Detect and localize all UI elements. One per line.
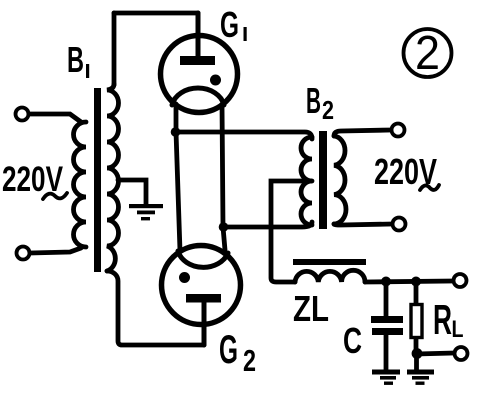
node A (junction dot) <box>171 127 181 137</box>
terminal T4 (right mid) <box>393 218 406 231</box>
svg-text:2: 2 <box>243 343 256 378</box>
svg-text:G: G <box>219 328 238 372</box>
label 220V (left) <box>2 160 63 199</box>
svg-text:B: B <box>306 80 321 121</box>
svg-text:G: G <box>220 4 239 45</box>
G2 plate lead <box>202 300 207 345</box>
wire (node D to ground) <box>414 354 419 370</box>
G2 plate bar <box>186 294 221 303</box>
transformer B2 primary winding <box>301 137 312 225</box>
figure number circled 2 <box>404 29 452 77</box>
transformer B2 core <box>319 131 327 229</box>
capacitor C plate 2 <box>372 328 403 335</box>
G1 plate bar <box>180 56 215 65</box>
wire (junction A to B2 primary top) <box>175 132 312 139</box>
terminal T3 (right top) <box>392 124 405 137</box>
wire (top horizontal) <box>114 11 198 16</box>
tube G2 <box>162 246 241 325</box>
wire (B1 tap to ground) <box>118 180 146 204</box>
G1 filament arc <box>172 88 224 105</box>
wire (junction B to B2 primary bottom) <box>223 222 312 227</box>
label ZL <box>293 288 329 329</box>
wire (capacitor to ground) <box>384 335 389 370</box>
wire (B2 secondary top lead) <box>334 130 391 136</box>
wire (left filament lead G1 to G2) <box>176 104 180 251</box>
svg-text:ZL: ZL <box>293 288 329 329</box>
G1 plate lead <box>196 13 201 57</box>
wire (B2 center tap down to choke) <box>271 181 312 282</box>
svg-text:L: L <box>452 316 464 343</box>
wire <box>30 248 81 253</box>
capacitor C plate 1 <box>371 316 403 323</box>
transformer B1 secondary winding <box>107 84 119 271</box>
svg-text:2: 2 <box>415 27 440 80</box>
wire (B1 secondary bottom lead) <box>107 271 204 345</box>
G2 gas dot <box>179 272 190 283</box>
label B1 <box>67 39 89 80</box>
label B2 <box>306 80 334 125</box>
ground (resistor) <box>407 370 434 385</box>
choke ZL winding <box>295 270 365 282</box>
wire (junction C2 to resistor) <box>414 281 419 303</box>
node C1 (junction dot) <box>381 277 391 287</box>
node B (junction dot) <box>219 222 229 232</box>
choke ZL core bar <box>293 259 366 265</box>
node C2 (junction dot) <box>411 277 421 287</box>
svg-text:R: R <box>433 296 452 343</box>
wire (node D to output terminal) <box>416 353 454 354</box>
label C <box>343 320 362 361</box>
label RL <box>433 296 464 343</box>
svg-text:C: C <box>343 320 362 361</box>
wire <box>29 114 81 122</box>
svg-text:B: B <box>67 39 84 80</box>
tilde under left V <box>43 193 67 199</box>
terminal T6 (right output bottom) <box>455 347 468 360</box>
label 220V (right) <box>374 151 437 192</box>
wire (secondary top lead up) <box>112 13 117 85</box>
transformer B2 secondary winding <box>334 136 346 224</box>
terminal T5 (right output top) <box>454 274 467 287</box>
svg-text:2: 2 <box>322 95 334 125</box>
ground (capacitor) <box>372 370 400 385</box>
ground (B1 tap) <box>129 204 163 220</box>
terminal T2 (left bottom input) <box>17 247 30 260</box>
wire (junction C1 to capacitor) <box>384 281 389 316</box>
label G2 <box>219 328 256 378</box>
wire (B2 secondary bottom lead) <box>334 224 392 225</box>
tube G1 <box>161 36 238 113</box>
G1 gas dot <box>210 75 221 86</box>
resistor RL box <box>411 305 422 338</box>
node D (junction dot) <box>412 348 423 359</box>
tilde under right V <box>420 185 439 190</box>
terminal T1 (left top input) <box>16 108 29 121</box>
wire (choke to output terminal) <box>365 281 453 282</box>
transformer B1 core <box>94 88 101 272</box>
wire (right filament lead G1 to G2) <box>222 104 225 250</box>
transformer B1 primary winding <box>73 122 86 247</box>
G2 filament arc <box>178 251 228 267</box>
label G1 <box>220 4 247 45</box>
wire (resistor to node D) <box>414 339 419 354</box>
